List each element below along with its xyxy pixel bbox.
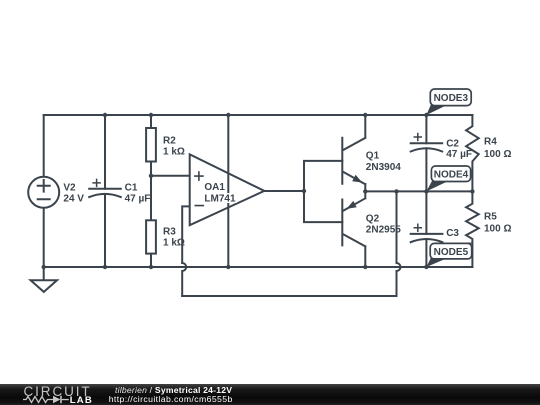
junction Q1 collector top rail NODE3 [363,113,367,117]
svg-text:LM741: LM741 [204,194,236,205]
junction R4-R5 NODE4 [470,189,474,193]
svg-text:1 kΩ: 1 kΩ [163,237,185,248]
C3 plus mark [414,224,421,231]
svg-text:Q1: Q1 [366,151,380,162]
footer bar [0,384,540,405]
node NODE4 [426,166,470,191]
svg-text:2N3904: 2N3904 [366,162,401,173]
wire C2 branch [425,115,427,191]
OA1 input polarity marks [195,172,203,206]
svg-text:R2: R2 [163,135,176,146]
junction OA1 V- bottom rail [226,265,230,269]
resistor R4 [466,115,479,191]
wire output rail NODE4 [365,190,472,192]
junction OA1 output to bases [302,189,306,193]
capacitor C3 [411,234,443,242]
ground [31,267,57,292]
node NODE5 [426,243,471,267]
C2 plus mark [414,134,421,141]
transistor arrows [42,113,475,269]
junction V2 ground bottom rail [42,265,46,269]
resistor R2 [146,128,156,162]
svg-text:24 V: 24 V [63,194,84,205]
wire bottom rail [44,266,473,268]
svg-text:C2: C2 [446,138,459,149]
svg-text:OA1: OA1 [204,182,225,193]
wire C1 branch [104,115,106,267]
C1 plus mark [93,179,100,186]
svg-text:Q2: Q2 [366,213,380,224]
svg-text:47 µF: 47 µF [125,194,151,205]
Q1 emitter arrow [352,175,362,183]
junction C3 bottom rail NODE5 [424,265,428,269]
svg-text:NODE5: NODE5 [434,247,469,258]
wire op-amp output [264,190,304,192]
voltage source V2 [28,177,59,208]
svg-text:R4: R4 [484,136,497,147]
wire hop left feedback [182,263,186,296]
svg-text:NODE4: NODE4 [434,170,469,181]
wire noninverting input [151,175,190,177]
wire V2 branch [43,115,45,267]
junction C1 top rail [103,113,107,117]
footer text [115,386,232,395]
svg-text:100 Ω: 100 Ω [484,149,511,160]
wire feedback bottom [182,295,396,297]
wire R2 branch [150,115,152,267]
capacitor C2 [411,143,443,151]
capacitor C1 [89,189,121,197]
junction Q1-Q2 emitters NODE4 [363,189,367,193]
junction R2 top rail [149,113,153,117]
svg-text:1 kΩ: 1 kΩ [163,146,185,157]
junction C1 bottom rail [103,265,107,269]
junction C2 top rail NODE3 [424,113,428,117]
wire C3 branch [425,191,427,267]
wire top rail [44,114,473,116]
resistor R3 [146,220,156,253]
svg-text:100 Ω: 100 Ω [484,224,511,235]
junction R3 bottom rail [149,265,153,269]
V2 polarity marks [38,180,50,199]
svg-text:R5: R5 [484,211,497,222]
labels [63,135,511,252]
wire op-amp power [227,115,229,267]
svg-text:C1: C1 [125,183,138,194]
op-amp OA1 [190,154,265,225]
resistor R5 [466,191,479,267]
transistor Q2 [342,191,365,267]
svg-text:R3: R3 [163,226,176,237]
transistor Q1 [342,115,365,191]
svg-text:NODE3: NODE3 [434,93,469,104]
svg-text:47 µF: 47 µF [446,149,472,160]
junction R2-R3 noninverting input [149,174,153,178]
node NODE3 [426,89,471,115]
wire hop right feedback [397,191,401,296]
junction Q2 collector bottom rail NODE5 [363,265,367,269]
svg-text:2N2955: 2N2955 [366,225,401,236]
junction C2-C3 NODE4 [424,189,428,193]
svg-text:V2: V2 [63,183,76,194]
junction OA1 V+ top rail [226,113,230,117]
svg-text:C3: C3 [446,228,459,239]
wire base tie [304,161,342,222]
Q2 emitter arrow [346,201,356,209]
junction feedback tap NODE4 [394,189,398,193]
wire inverting input [182,206,190,263]
CircuitLab logo [24,385,92,399]
